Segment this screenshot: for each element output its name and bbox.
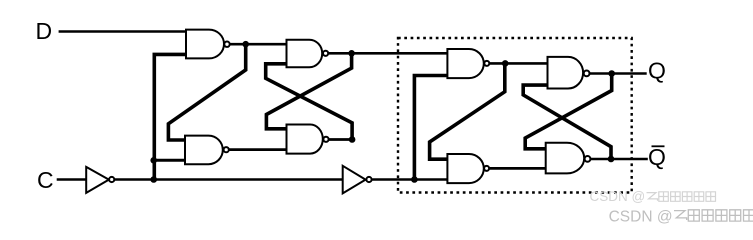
wire G8 output cross-coupled to G7 bottom input bbox=[523, 85, 611, 159]
wire G1 output to G3 top input bbox=[230, 43, 287, 46]
wire C input to inverter U1 bbox=[57, 178, 86, 181]
bubble G4 bbox=[323, 137, 328, 142]
watermark line 1 bbox=[590, 189, 716, 204]
bubble U1 bbox=[109, 177, 114, 182]
nand gate G4 bbox=[287, 125, 323, 154]
wire G3 output to G5 top input bbox=[328, 52, 447, 55]
wire G7 output to Q terminal bbox=[589, 72, 646, 75]
junction node G5 output bbox=[502, 60, 509, 67]
wire G8 output to Q-bar terminal bbox=[591, 158, 648, 161]
wire inverter U2 output to G6 bottom input (clock line CP'') bbox=[372, 178, 447, 181]
wire G4 output cross-coupled to G3 bottom input bbox=[266, 64, 352, 140]
bubble G3 bbox=[323, 51, 328, 56]
wire G5 output to G7 top input bbox=[489, 62, 547, 65]
nand gate G7 bbox=[548, 57, 584, 89]
bubble G7 bbox=[584, 71, 590, 77]
junction node CP'' line bbox=[411, 176, 418, 183]
nand gate G6 bbox=[447, 154, 483, 183]
wire CP' branch to G2 bottom input bbox=[154, 159, 185, 162]
wire G3 output cross-coupled to G4 top input bbox=[266, 53, 351, 129]
wire inverter U1 output to inverter U2 input (clock line CP') bbox=[114, 178, 343, 181]
wire G5 output feedback to G6 top input bbox=[430, 63, 505, 159]
junction node G3 output bbox=[348, 50, 355, 57]
nand gate G3 bbox=[287, 40, 323, 67]
wire CP' vertical branch to G1 bottom input bbox=[154, 54, 186, 179]
wire G4 output stub bbox=[329, 138, 353, 141]
inverter U2 bbox=[343, 166, 366, 194]
nand gate G1 bbox=[186, 30, 224, 59]
svg-text:Q: Q bbox=[648, 58, 666, 84]
wire CP'' vertical branch to G5 bottom input bbox=[414, 76, 447, 180]
svg-text:CSDN @: CSDN @ bbox=[609, 209, 673, 226]
bubble U2 bbox=[366, 177, 371, 182]
svg-text:C: C bbox=[37, 167, 54, 193]
bubble G8 bbox=[585, 156, 591, 162]
junction node G1 output bbox=[242, 41, 249, 48]
bubble G6 bbox=[484, 166, 489, 171]
junction node G4 output bbox=[349, 136, 356, 143]
wire D input to G1 top input bbox=[59, 30, 186, 33]
wire G6 output to G8 bottom input bbox=[489, 167, 546, 170]
bubble G1 bbox=[224, 42, 229, 47]
junction node G8 output bbox=[608, 156, 615, 163]
wire G2 output to G4 bottom input bbox=[229, 148, 287, 151]
nand gate G5 bbox=[447, 49, 483, 78]
junction node CP' line bbox=[150, 176, 157, 183]
nand gate G8 bbox=[546, 143, 584, 174]
svg-text:D: D bbox=[36, 18, 53, 44]
watermark line 2 bbox=[609, 209, 753, 226]
svg-text:CSDN @: CSDN @ bbox=[590, 189, 646, 204]
label Q-bar overline bbox=[652, 145, 665, 147]
wire G7 output cross-coupled to G8 top input bbox=[525, 74, 612, 149]
junction node CP' to G2 bbox=[150, 157, 157, 164]
svg-text:Q: Q bbox=[648, 144, 666, 170]
junction node G7 output bbox=[608, 70, 615, 77]
bubble G2 bbox=[224, 147, 229, 152]
bubble G5 bbox=[484, 61, 489, 66]
slave latch dotted enclosure bbox=[398, 38, 632, 193]
wire G1 output feedback to G2 top input bbox=[168, 44, 245, 140]
nand gate G2 bbox=[185, 136, 223, 165]
inverter U1 bbox=[86, 167, 109, 193]
